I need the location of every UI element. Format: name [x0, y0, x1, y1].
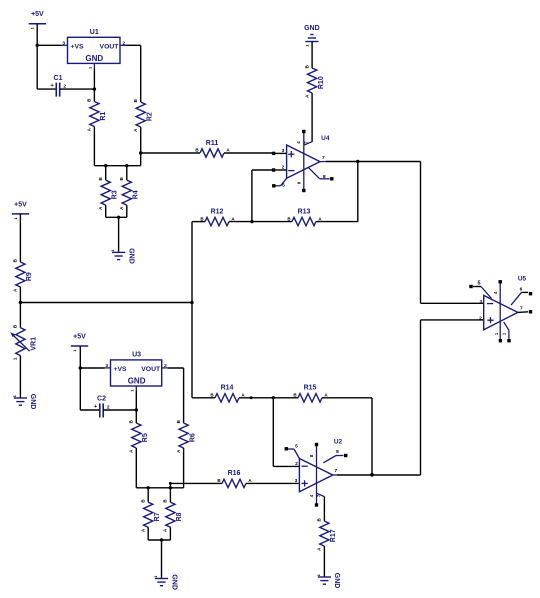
- svg-text:GND: GND: [170, 574, 177, 590]
- svg-text:8: 8: [336, 449, 339, 455]
- svg-text:R1: R1: [100, 112, 107, 121]
- svg-text:3: 3: [295, 478, 298, 484]
- svg-text:U2: U2: [334, 438, 343, 445]
- svg-text:VR1: VR1: [30, 337, 37, 351]
- svg-text:+5V: +5V: [14, 201, 27, 208]
- svg-text:R4: R4: [133, 190, 140, 199]
- svg-text:GND: GND: [85, 54, 103, 63]
- svg-text:VOUT: VOUT: [100, 44, 120, 51]
- svg-text:R3: R3: [112, 190, 119, 199]
- svg-text:8: 8: [323, 174, 326, 180]
- svg-text:GND: GND: [333, 573, 340, 589]
- svg-text:GND: GND: [29, 394, 36, 410]
- svg-text:VOUT: VOUT: [141, 366, 161, 373]
- svg-text:R13: R13: [298, 208, 311, 215]
- svg-text:2: 2: [295, 461, 298, 467]
- svg-text:3: 3: [479, 299, 482, 305]
- svg-text:2: 2: [282, 165, 285, 171]
- svg-text:R16: R16: [228, 470, 241, 477]
- svg-text:+: +: [94, 404, 97, 410]
- svg-text:R15: R15: [304, 385, 317, 392]
- svg-text:R17: R17: [330, 529, 337, 542]
- svg-text:C1: C1: [54, 75, 63, 82]
- svg-text:U1: U1: [90, 29, 99, 36]
- svg-text:R8: R8: [176, 512, 183, 521]
- svg-text:R9: R9: [26, 272, 33, 281]
- svg-text:R6: R6: [189, 433, 196, 442]
- svg-text:R14: R14: [221, 385, 234, 392]
- svg-text:GND: GND: [127, 248, 134, 264]
- svg-text:R10: R10: [318, 76, 325, 89]
- svg-text:R12: R12: [211, 208, 224, 215]
- svg-text:+VS: +VS: [70, 44, 84, 51]
- svg-text:R2: R2: [147, 112, 154, 121]
- svg-text:GND: GND: [128, 377, 146, 386]
- svg-text:U3: U3: [132, 352, 141, 359]
- svg-text:5: 5: [295, 444, 298, 450]
- svg-text:5: 5: [477, 280, 480, 286]
- svg-text:+5V: +5V: [31, 11, 44, 18]
- svg-text:GND: GND: [304, 25, 320, 32]
- svg-text:+: +: [50, 83, 53, 89]
- svg-text:7: 7: [520, 305, 523, 311]
- svg-text:U5: U5: [518, 275, 527, 282]
- svg-text:7: 7: [322, 155, 325, 161]
- svg-text:5: 5: [282, 183, 285, 189]
- svg-text:R5: R5: [142, 433, 149, 442]
- svg-text:2: 2: [164, 363, 167, 369]
- svg-text:+5V: +5V: [73, 334, 86, 341]
- svg-text:3: 3: [282, 148, 285, 154]
- svg-text:R11: R11: [206, 140, 219, 147]
- svg-text:C2: C2: [97, 396, 106, 403]
- svg-text:3: 3: [62, 40, 65, 46]
- svg-text:7: 7: [334, 468, 337, 474]
- svg-text:U4: U4: [321, 135, 330, 142]
- svg-text:2: 2: [122, 40, 125, 46]
- svg-text:2: 2: [479, 316, 482, 322]
- svg-text:R7: R7: [154, 512, 161, 521]
- svg-text:+VS: +VS: [113, 366, 127, 373]
- svg-text:3: 3: [105, 363, 108, 369]
- svg-text:6: 6: [520, 286, 523, 292]
